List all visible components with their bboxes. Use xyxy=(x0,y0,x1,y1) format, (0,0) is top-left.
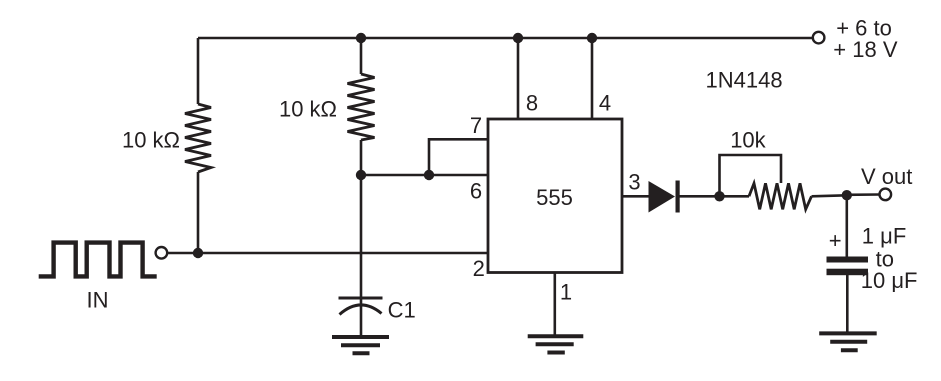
pulse waveform IN xyxy=(39,243,157,277)
wire: R3 to Vout node xyxy=(812,195,848,196)
svg-text:7: 7 xyxy=(470,113,482,138)
wire: pin 3 stub xyxy=(622,195,649,198)
ground: under pin 1 xyxy=(528,336,584,352)
svg-text:V out: V out xyxy=(861,164,912,189)
svg-text:C1: C1 xyxy=(388,298,416,323)
wire: input terminal to pin 2 xyxy=(167,252,488,255)
wire: pin 1 xyxy=(553,273,556,337)
wire: R1 bottom lead xyxy=(197,172,200,253)
svg-text:2: 2 xyxy=(473,256,485,281)
terminal: +V supply xyxy=(813,32,825,44)
wire: C2 to ground xyxy=(846,275,849,333)
IC U1 555 (box) xyxy=(488,119,622,273)
junction dot: pin 7 tie xyxy=(424,170,434,180)
resistor R3 10k (horizontal zigzag) xyxy=(749,183,812,209)
capacitor C2 top plate xyxy=(827,257,869,263)
resistor R1 10 kOhm (vertical zigzag) xyxy=(185,104,211,172)
ground: under C1 xyxy=(332,337,389,353)
svg-text:10 kΩ: 10 kΩ xyxy=(122,128,180,153)
svg-text:10k: 10k xyxy=(730,128,766,153)
svg-text:10 μF: 10 μF xyxy=(861,268,918,293)
svg-text:1 μF: 1 μF xyxy=(862,224,906,249)
capacitor C1 curved plate xyxy=(340,305,382,315)
resistor R2 10 kOhm (vertical zigzag) xyxy=(348,74,375,140)
wire: R2 bottom lead xyxy=(360,140,363,175)
wire: feedback bracket over R3 xyxy=(720,155,782,196)
junction dot: input node xyxy=(193,248,203,258)
junction dot: diode/feedback node xyxy=(714,191,724,201)
wire: R2 top lead xyxy=(360,38,363,74)
svg-text:+: + xyxy=(829,228,842,253)
junction dot: Vout node xyxy=(842,190,852,200)
svg-text:+ 18 V: + 18 V xyxy=(833,37,898,62)
wire: R1 top lead xyxy=(197,38,200,104)
diode D1 cathode bar xyxy=(676,181,680,213)
svg-text:8: 8 xyxy=(526,91,538,116)
wire: Vout stub xyxy=(847,193,880,196)
svg-text:10 kΩ: 10 kΩ xyxy=(279,97,337,122)
diode D1 1N4148 (anode triangle) xyxy=(649,181,676,213)
svg-text:3: 3 xyxy=(628,169,640,194)
capacitor C1 top plate xyxy=(339,297,383,300)
wire: pin 4 xyxy=(591,38,594,119)
wire: node to pin 6 xyxy=(361,174,488,177)
wire: pin 8 xyxy=(517,38,520,119)
junction dot: pin 8 on rail xyxy=(513,33,523,43)
capacitor C2 bottom plate xyxy=(827,269,869,276)
svg-text:1: 1 xyxy=(560,280,572,305)
wire: Vout node down to C2 xyxy=(845,195,848,257)
junction dot: R2 top on rail xyxy=(356,33,366,43)
ground: under C2 xyxy=(819,333,877,350)
junction dot: R2/C1/pin6 node xyxy=(356,170,366,180)
terminal: pulse input xyxy=(156,247,168,259)
wire: top supply rail xyxy=(198,37,813,40)
svg-text:6: 6 xyxy=(470,178,482,203)
terminal: V out xyxy=(880,189,892,201)
svg-text:IN: IN xyxy=(87,288,109,313)
junction dot: pin 4 on rail xyxy=(587,33,597,43)
svg-text:1N4148: 1N4148 xyxy=(706,67,783,92)
svg-text:555: 555 xyxy=(536,185,573,210)
wire: C1 column (node to ground) xyxy=(360,175,363,336)
svg-text:4: 4 xyxy=(599,91,611,116)
wire: pin 7 stub xyxy=(429,139,488,175)
wire: diode to R3 xyxy=(680,195,750,198)
